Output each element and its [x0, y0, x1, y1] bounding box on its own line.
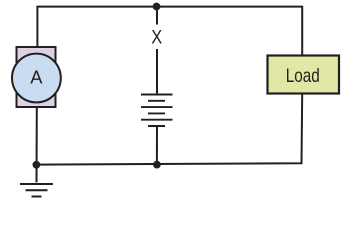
node label X [151, 27, 162, 49]
wire: ammeter down to ground junction [36, 108, 38, 183]
load (resistive load box) [268, 56, 340, 94]
junction dot: ammeter to bottom rail / ground [33, 161, 41, 169]
svg-text:Load: Load [286, 65, 320, 87]
junction dot: battery to bottom rail [153, 161, 161, 169]
svg-text:X: X [151, 27, 162, 49]
ammeter A [12, 47, 61, 107]
wire: top rail from ammeter branch to load branch [37, 7, 302, 55]
ground [20, 184, 53, 197]
wire: battery negative terminal down to bottom rail [156, 126, 158, 165]
node X junction dot (top) [153, 3, 161, 11]
svg-text:A: A [30, 67, 43, 88]
wire: stub from node X dot down to label X [156, 7, 158, 25]
wire: from label X down to battery positive terminal [156, 49, 158, 95]
wire: bottom rail from ground junction to load branch [36, 95, 302, 165]
battery B1 (3-cell) [141, 95, 173, 127]
